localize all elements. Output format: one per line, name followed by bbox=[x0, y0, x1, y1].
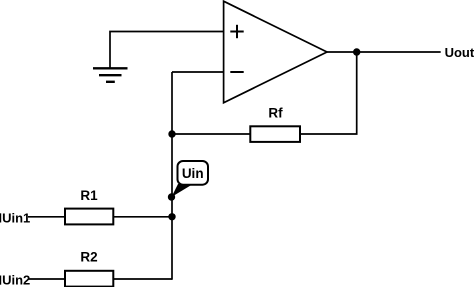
clipped glyph at left edge (row 1) bbox=[0, 213, 1, 222]
node: Rf tap junction bbox=[168, 130, 175, 137]
svg-text:Uin: Uin bbox=[182, 166, 204, 181]
node: callout anchor bbox=[168, 193, 175, 200]
svg-text:Uout: Uout bbox=[445, 45, 474, 60]
wire: R1 to summing node bbox=[113, 216, 172, 218]
wire: non-inverting input to ground bbox=[110, 32, 224, 68]
resistor R2 bbox=[65, 271, 113, 287]
wire: output bbox=[327, 51, 441, 53]
wire: feedback left bbox=[172, 133, 250, 135]
op-amp plus pin marking bbox=[230, 25, 243, 38]
op-amp U1 bbox=[224, 1, 327, 103]
node: output junction bbox=[353, 48, 360, 55]
wire: feedback vertical bbox=[300, 52, 357, 134]
clipped glyph at left edge (row 2) bbox=[0, 276, 1, 285]
node: R1 junction bbox=[168, 213, 175, 220]
wire: inverting input stub bbox=[172, 71, 224, 73]
callout bubble Uin bbox=[178, 161, 209, 185]
resistor Rf bbox=[250, 126, 300, 142]
wire: Uin2 to R2 bbox=[28, 278, 65, 280]
svg-text:Uin1: Uin1 bbox=[2, 210, 30, 225]
ground bbox=[93, 68, 128, 82]
resistor R1 bbox=[65, 209, 113, 225]
svg-text:R1: R1 bbox=[80, 188, 98, 203]
wire: summing node vertical bbox=[171, 72, 173, 280]
svg-text:R2: R2 bbox=[80, 250, 97, 265]
callout tail bbox=[172, 184, 194, 197]
wire: Uin1 to R1 bbox=[28, 216, 65, 218]
svg-text:Rf: Rf bbox=[268, 105, 283, 120]
svg-text:Uin2: Uin2 bbox=[2, 273, 30, 287]
wire: R2 to summing node bbox=[113, 278, 172, 280]
op-amp minus pin marking bbox=[230, 71, 243, 73]
